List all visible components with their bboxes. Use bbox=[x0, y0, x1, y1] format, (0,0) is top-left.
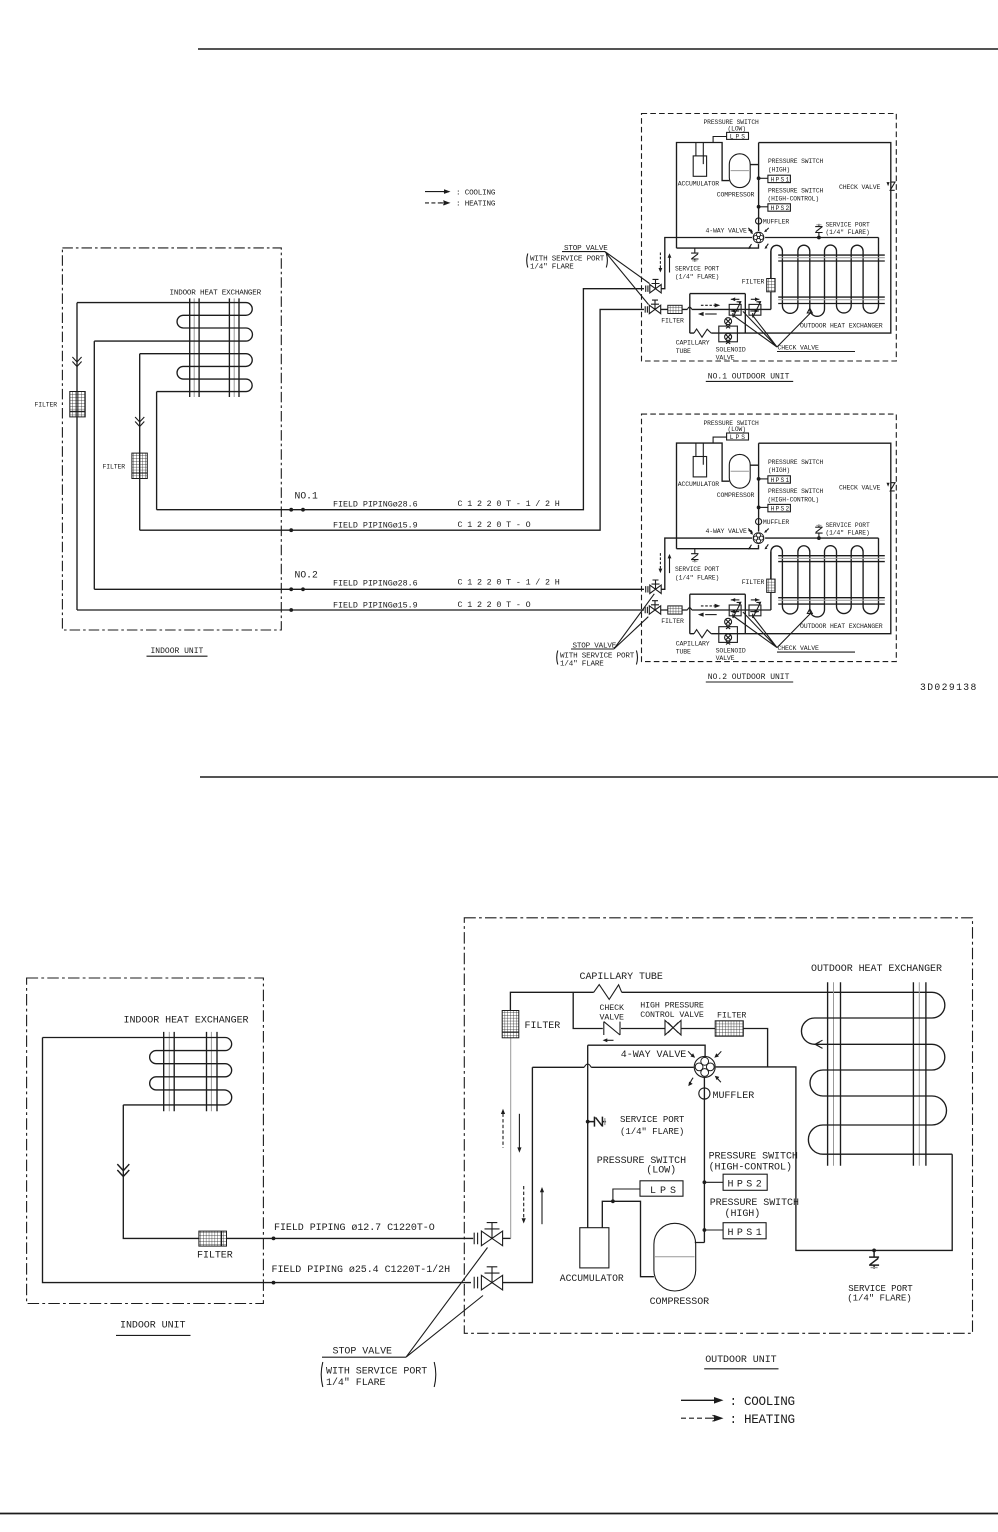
svg-text:VALVE: VALVE bbox=[716, 355, 735, 362]
accumulator U1 bbox=[693, 143, 706, 177]
legend cooling arrow (bottom) bbox=[681, 1397, 724, 1404]
stop valve label (NO.2) bbox=[571, 642, 617, 650]
high pressure control valve bbox=[665, 1020, 681, 1035]
svg-text:(HIGH): (HIGH) bbox=[768, 167, 790, 174]
4-way valve label bbox=[706, 227, 753, 234]
check valve branch pipe bbox=[573, 992, 767, 1067]
svg-text:VALVE: VALVE bbox=[600, 1014, 625, 1023]
svg-text:FIELD PIPINGø28.6: FIELD PIPINGø28.6 bbox=[333, 500, 418, 510]
svg-text:FIELD PIPING ø25.4 C1220T-1/2H: FIELD PIPING ø25.4 C1220T-1/2H bbox=[272, 1264, 451, 1276]
middle horizontal rule bbox=[200, 776, 998, 778]
stop valve pointer lines (NO.1) bbox=[605, 252, 650, 305]
HPS2 switch (bottom) bbox=[703, 1174, 768, 1190]
indoor unit dashed box (bottom) bbox=[27, 978, 264, 1304]
svg-text:CHECK: CHECK bbox=[600, 1004, 625, 1013]
capillary tube bbox=[694, 329, 711, 337]
solenoid valve bbox=[719, 318, 738, 344]
outdoor heat exchanger coil (bottom) bbox=[801, 992, 952, 1154]
pipe: bridge middle line to heat exchanger filter bbox=[661, 251, 771, 309]
svg-text:: HEATING: : HEATING bbox=[456, 201, 496, 209]
junction dot line4 bbox=[289, 608, 293, 612]
compressor M1 bbox=[729, 154, 750, 188]
pipe: coil row1 drop (bottom indoor, gas) bbox=[43, 1038, 472, 1283]
svg-text:NO.2 OUTDOOR UNIT: NO.2 OUTDOOR UNIT bbox=[708, 673, 790, 682]
svg-text:FIELD PIPING ø12.7 C1220T-O: FIELD PIPING ø12.7 C1220T-O bbox=[274, 1223, 435, 1234]
NO.2 outdoor unit (duplicate of NO.1) bbox=[642, 414, 897, 662]
coil flow arrow bbox=[807, 308, 812, 313]
service port (coil feed, pointing up) bbox=[815, 224, 822, 238]
stop valve 2 (bottom, gas) bbox=[474, 1267, 502, 1290]
stop valve pointer lines (NO.2) bbox=[614, 594, 654, 649]
bridge check valve 1 bbox=[729, 301, 741, 317]
HPS2 pressure switch bbox=[757, 204, 791, 212]
svg-text:FILTER: FILTER bbox=[525, 1021, 561, 1032]
stop valve 2 (liquid) bbox=[645, 300, 661, 314]
field piping line 2 (NO.1 liquid) bbox=[140, 309, 644, 530]
filter (indoor top-left) bbox=[70, 392, 85, 417]
junction dots line1 bbox=[289, 508, 293, 512]
service port tap (condenser loop) bbox=[872, 1249, 876, 1253]
heating flow arrow (dashed down) bbox=[659, 253, 663, 273]
filter (indoor top second) bbox=[132, 453, 147, 478]
svg-text:CONTROL VALVE: CONTROL VALVE bbox=[640, 1011, 704, 1020]
stop valve note (NO.2) bbox=[557, 651, 638, 669]
filter (bottom indoor) bbox=[199, 1231, 227, 1246]
svg-text:FIELD PIPINGø28.6: FIELD PIPINGø28.6 bbox=[333, 578, 418, 588]
4-way valve label (bottom) bbox=[621, 1050, 687, 1061]
svg-text:ACCUMULATOR: ACCUMULATOR bbox=[678, 180, 720, 187]
svg-text:COMPRESSOR: COMPRESSOR bbox=[717, 192, 755, 199]
svg-text:PRESSURE SWITCH: PRESSURE SWITCH bbox=[710, 1198, 799, 1209]
service port glyph (suction, pointing right) bbox=[588, 1117, 606, 1127]
junction dot line2 bbox=[289, 528, 293, 532]
4-way valve left pipe with hop bbox=[532, 1066, 693, 1068]
capillary tube (bottom) bbox=[594, 985, 622, 1000]
svg-text:FIELD PIPINGø15.9: FIELD PIPINGø15.9 bbox=[333, 600, 418, 610]
check valve (bottom) bbox=[604, 1022, 620, 1035]
indoor heat exchanger coil (top) bbox=[77, 303, 252, 342]
stop valve pointer lines (bottom) bbox=[406, 1248, 488, 1358]
4-way valve bbox=[748, 228, 768, 249]
pipe: after stop valve 1 riser (grey) bbox=[503, 1237, 511, 1239]
indoor heat exchanger coil (bottom) bbox=[43, 1038, 232, 1105]
svg-text:FILTER: FILTER bbox=[661, 318, 684, 325]
filter (heat exchanger inlet) bbox=[767, 279, 775, 292]
flow arrow on row5 drop bbox=[135, 417, 144, 427]
svg-text:: COOLING: : COOLING bbox=[456, 189, 496, 197]
svg-text:(1/4" FLARE): (1/4" FLARE) bbox=[620, 1126, 684, 1137]
field piping line 4 (NO.2 liquid) bbox=[77, 609, 644, 611]
svg-text:OUTDOOR UNIT: OUTDOOR UNIT bbox=[705, 1355, 776, 1366]
svg-text:WITH SERVICE PORT: WITH SERVICE PORT bbox=[530, 256, 605, 264]
wire hop over bypass vertical bbox=[687, 307, 691, 309]
svg-text:NO.1 OUTDOOR UNIT: NO.1 OUTDOOR UNIT bbox=[708, 373, 790, 382]
HPS1 switch (bottom) bbox=[703, 1223, 767, 1239]
svg-text:(HIGH-CONTROL): (HIGH-CONTROL) bbox=[709, 1162, 792, 1174]
svg-text:PRESSURE SWITCH: PRESSURE SWITCH bbox=[768, 158, 824, 165]
svg-text:CHECK VALVE: CHECK VALVE bbox=[778, 345, 820, 352]
svg-text:HPS1: HPS1 bbox=[771, 177, 791, 184]
legend cooling arrow (top) bbox=[425, 189, 451, 194]
junction dots line3 bbox=[289, 587, 293, 591]
check valve label (bridge) bbox=[777, 345, 855, 352]
check valve flow arrow bbox=[603, 1038, 614, 1042]
bridge flow arrows bbox=[701, 303, 720, 307]
service port tap dot on coil feed bbox=[817, 236, 821, 240]
LPS switch (bottom) bbox=[613, 1181, 683, 1202]
top horizontal rule bbox=[198, 48, 998, 50]
svg-text:PRESSURE SWITCH: PRESSURE SWITCH bbox=[709, 1151, 798, 1162]
svg-text:SERVICE PORT: SERVICE PORT bbox=[620, 1114, 685, 1125]
svg-text:FILTER: FILTER bbox=[717, 1012, 746, 1021]
discharge pipe riser and check-valve bypass loop bbox=[690, 143, 891, 334]
HPS1 pressure switch bbox=[757, 175, 791, 183]
NO.2 outdoor unit caption bbox=[706, 673, 793, 682]
filter (after stop valve 2) bbox=[668, 305, 682, 313]
filter (check valve branch) bbox=[715, 1021, 743, 1036]
suction pipe from 4-way valve to compressor bbox=[677, 143, 730, 249]
outdoor unit dashed box bbox=[642, 114, 897, 362]
bridge check valve 2 bbox=[749, 301, 761, 317]
check valve (bypass, top right) bbox=[887, 182, 896, 190]
muffler bbox=[756, 218, 790, 226]
svg-text:(1/4" FLARE): (1/4" FLARE) bbox=[675, 274, 719, 281]
check valve pointer lines bbox=[734, 311, 810, 347]
svg-text:(1/4" FLARE): (1/4" FLARE) bbox=[847, 1292, 911, 1303]
svg-text:INDOOR UNIT: INDOOR UNIT bbox=[151, 647, 204, 656]
svg-text:TUBE: TUBE bbox=[676, 348, 691, 355]
svg-text:CHECK VALVE: CHECK VALVE bbox=[839, 184, 881, 191]
accumulator (bottom) bbox=[580, 1199, 654, 1276]
discharge pipe (bottom) bbox=[695, 1078, 705, 1243]
svg-text:PRESSURE SWITCH: PRESSURE SWITCH bbox=[768, 188, 824, 195]
svg-text:ACCUMULATOR: ACCUMULATOR bbox=[560, 1273, 624, 1284]
svg-text:SERVICE PORT: SERVICE PORT bbox=[826, 221, 870, 228]
indoor unit label (top) bbox=[147, 647, 208, 656]
LPS switch bbox=[713, 132, 748, 142]
svg-text:FILTER: FILTER bbox=[197, 1251, 233, 1262]
stop valve label (bottom) bbox=[322, 1346, 406, 1357]
NO.1 outdoor unit caption bbox=[706, 373, 793, 382]
cooling arrow (liquid riser, solid down) bbox=[517, 1114, 521, 1153]
service port tap (suction) bbox=[586, 1120, 590, 1124]
4-way valve (bottom) bbox=[688, 1051, 721, 1086]
pipe: 4-way valve to outdoor coil bbox=[765, 237, 878, 239]
outdoor coil fins bbox=[778, 255, 885, 303]
svg-text:(LOW): (LOW) bbox=[646, 1164, 676, 1176]
svg-text:(HIGH): (HIGH) bbox=[725, 1208, 761, 1220]
pipe: stop valve riser to 4-way valve (line B) bbox=[661, 238, 752, 289]
svg-text:HPS1: HPS1 bbox=[728, 1228, 766, 1239]
svg-text:HPS2: HPS2 bbox=[771, 205, 791, 212]
pipe: 4-way valve to condenser loop bbox=[716, 1067, 953, 1251]
coil flow arrow (bottom) bbox=[815, 1040, 823, 1048]
cooling arrow (gas riser, solid up) bbox=[540, 1187, 544, 1224]
service port (suction line, hanging) bbox=[691, 248, 698, 262]
muffler (bottom) bbox=[699, 1088, 754, 1102]
filter (liquid line, bottom outdoor) bbox=[502, 1011, 519, 1038]
outdoor heat exchanger fins (bottom) bbox=[828, 982, 926, 1165]
pipe: coil row8 drop to field line 1 bbox=[156, 392, 158, 510]
indoor unit caption (bottom) bbox=[116, 1320, 191, 1335]
junction dot gas bbox=[272, 1281, 276, 1285]
svg-text:C1220T-1/2H: C1220T-1/2H bbox=[458, 578, 565, 588]
svg-text:SOLENOID: SOLENOID bbox=[716, 347, 746, 354]
pipe: after stop valve 2 riser bbox=[503, 1067, 533, 1282]
svg-text:C1220T-1/2H: C1220T-1/2H bbox=[458, 499, 565, 509]
outdoor unit dashed box (bottom) bbox=[464, 918, 972, 1334]
suction pipe lower run to 4-way valve bottom bbox=[677, 244, 759, 248]
stop valve 1 (gas) bbox=[646, 279, 662, 293]
svg-text:4-WAY VALVE: 4-WAY VALVE bbox=[706, 227, 748, 234]
junction dot liquid bbox=[272, 1237, 276, 1241]
legend heating arrow (bottom) bbox=[681, 1415, 724, 1422]
stop valve label (NO.1) bbox=[562, 245, 608, 253]
indoor unit dashed box (top) bbox=[62, 248, 281, 630]
field piping liquid line (bottom) bbox=[227, 1237, 474, 1239]
outdoor heat exchanger coil bbox=[771, 238, 879, 317]
svg-text:1/4" FLARE: 1/4" FLARE bbox=[326, 1377, 386, 1389]
heating arrow (gas riser, dashed down) bbox=[522, 1186, 526, 1224]
pipe: coil row4 exit drop to field line 3 bbox=[93, 341, 95, 589]
stop valve note (NO.1) bbox=[527, 254, 608, 272]
svg-text:WITH SERVICE PORT: WITH SERVICE PORT bbox=[326, 1367, 427, 1378]
svg-text:INDOOR HEAT EXCHANGER: INDOOR HEAT EXCHANGER bbox=[170, 290, 262, 298]
svg-text:FILTER: FILTER bbox=[103, 464, 126, 471]
pipe: coil row1 drop to field line 4 bbox=[76, 303, 78, 610]
pipe: liquid line to capillary and coil row1 bbox=[510, 992, 932, 1010]
svg-text:STOP VALVE: STOP VALVE bbox=[333, 1346, 393, 1357]
svg-text:(LOW): (LOW) bbox=[728, 126, 746, 133]
svg-text:MUFFLER: MUFFLER bbox=[713, 1091, 755, 1102]
svg-text:CAPILLARY TUBE: CAPILLARY TUBE bbox=[580, 972, 663, 983]
svg-text:OUTDOOR HEAT EXCHANGER: OUTDOOR HEAT EXCHANGER bbox=[811, 964, 942, 975]
flow arrow on drop pipe bbox=[72, 357, 81, 367]
svg-text:(HIGH-CONTROL): (HIGH-CONTROL) bbox=[768, 196, 820, 203]
svg-text:HPS2: HPS2 bbox=[728, 1180, 766, 1191]
svg-text:C1220T-O: C1220T-O bbox=[458, 520, 536, 530]
pipe: coil row6 drop (bottom indoor, liquid) bbox=[123, 1105, 199, 1239]
svg-text:: COOLING: : COOLING bbox=[730, 1395, 795, 1409]
outdoor unit caption (bottom) bbox=[704, 1355, 778, 1369]
svg-text:NO.2: NO.2 bbox=[295, 570, 318, 581]
svg-text:OUTDOOR HEAT EXCHANGER: OUTDOOR HEAT EXCHANGER bbox=[800, 322, 883, 329]
flow arrow on indoor drop bbox=[117, 1164, 129, 1176]
indoor heat exchanger fins (bottom) bbox=[164, 1032, 217, 1111]
svg-text:FILTER: FILTER bbox=[35, 402, 58, 409]
svg-text:1/4" FLARE: 1/4" FLARE bbox=[530, 264, 574, 272]
svg-text:FIELD PIPINGø15.9: FIELD PIPINGø15.9 bbox=[333, 520, 418, 530]
cooling flow arrow (solid up) bbox=[668, 253, 672, 272]
legend heating arrow (top) bbox=[425, 201, 451, 206]
service port glyph (condenser loop) bbox=[869, 1250, 879, 1268]
svg-text:LPS: LPS bbox=[730, 133, 747, 140]
svg-text:: HEATING: : HEATING bbox=[730, 1413, 795, 1427]
svg-text:CAPILLARY: CAPILLARY bbox=[676, 340, 710, 347]
field piping line 1 (NO.1 gas) bbox=[157, 289, 644, 510]
svg-text:INDOOR UNIT: INDOOR UNIT bbox=[120, 1320, 186, 1331]
svg-text:C1220T-O: C1220T-O bbox=[458, 600, 536, 610]
svg-text:HIGH PRESSURE: HIGH PRESSURE bbox=[640, 1001, 704, 1010]
4-way valve top pipe bbox=[588, 1045, 705, 1056]
svg-text:(1/4" FLARE): (1/4" FLARE) bbox=[826, 229, 870, 236]
svg-text:INDOOR HEAT EXCHANGER: INDOOR HEAT EXCHANGER bbox=[124, 1015, 249, 1026]
stop valve 1 (bottom, liquid) bbox=[474, 1223, 502, 1246]
bottom horizontal rule bbox=[0, 1513, 998, 1515]
svg-text:NO.1: NO.1 bbox=[295, 491, 318, 502]
heating arrow (liquid riser, dashed up) bbox=[501, 1109, 505, 1148]
indoor heat exchanger fins (top) bbox=[190, 298, 239, 397]
suction riser from 4-way valve bbox=[587, 1045, 589, 1228]
svg-text:4-WAY VALVE: 4-WAY VALVE bbox=[621, 1050, 687, 1061]
svg-text:1/4" FLARE: 1/4" FLARE bbox=[560, 660, 604, 668]
check valve bridge bypass rectangle bbox=[690, 294, 746, 334]
svg-text:FILTER: FILTER bbox=[742, 279, 765, 286]
svg-text:3D029138: 3D029138 bbox=[920, 682, 978, 693]
svg-text:SERVICE PORT: SERVICE PORT bbox=[675, 266, 719, 273]
compressor (bottom) bbox=[654, 1223, 696, 1291]
svg-text:MUFFLER: MUFFLER bbox=[763, 218, 790, 225]
pipe: coil row5 feed drop to field line 2 bbox=[139, 354, 141, 531]
stop valve note (bottom) bbox=[321, 1362, 436, 1389]
svg-text:COMPRESSOR: COMPRESSOR bbox=[650, 1297, 710, 1308]
svg-text:LPS: LPS bbox=[650, 1186, 680, 1197]
field piping line 3 (NO.2 gas) bbox=[94, 588, 644, 590]
